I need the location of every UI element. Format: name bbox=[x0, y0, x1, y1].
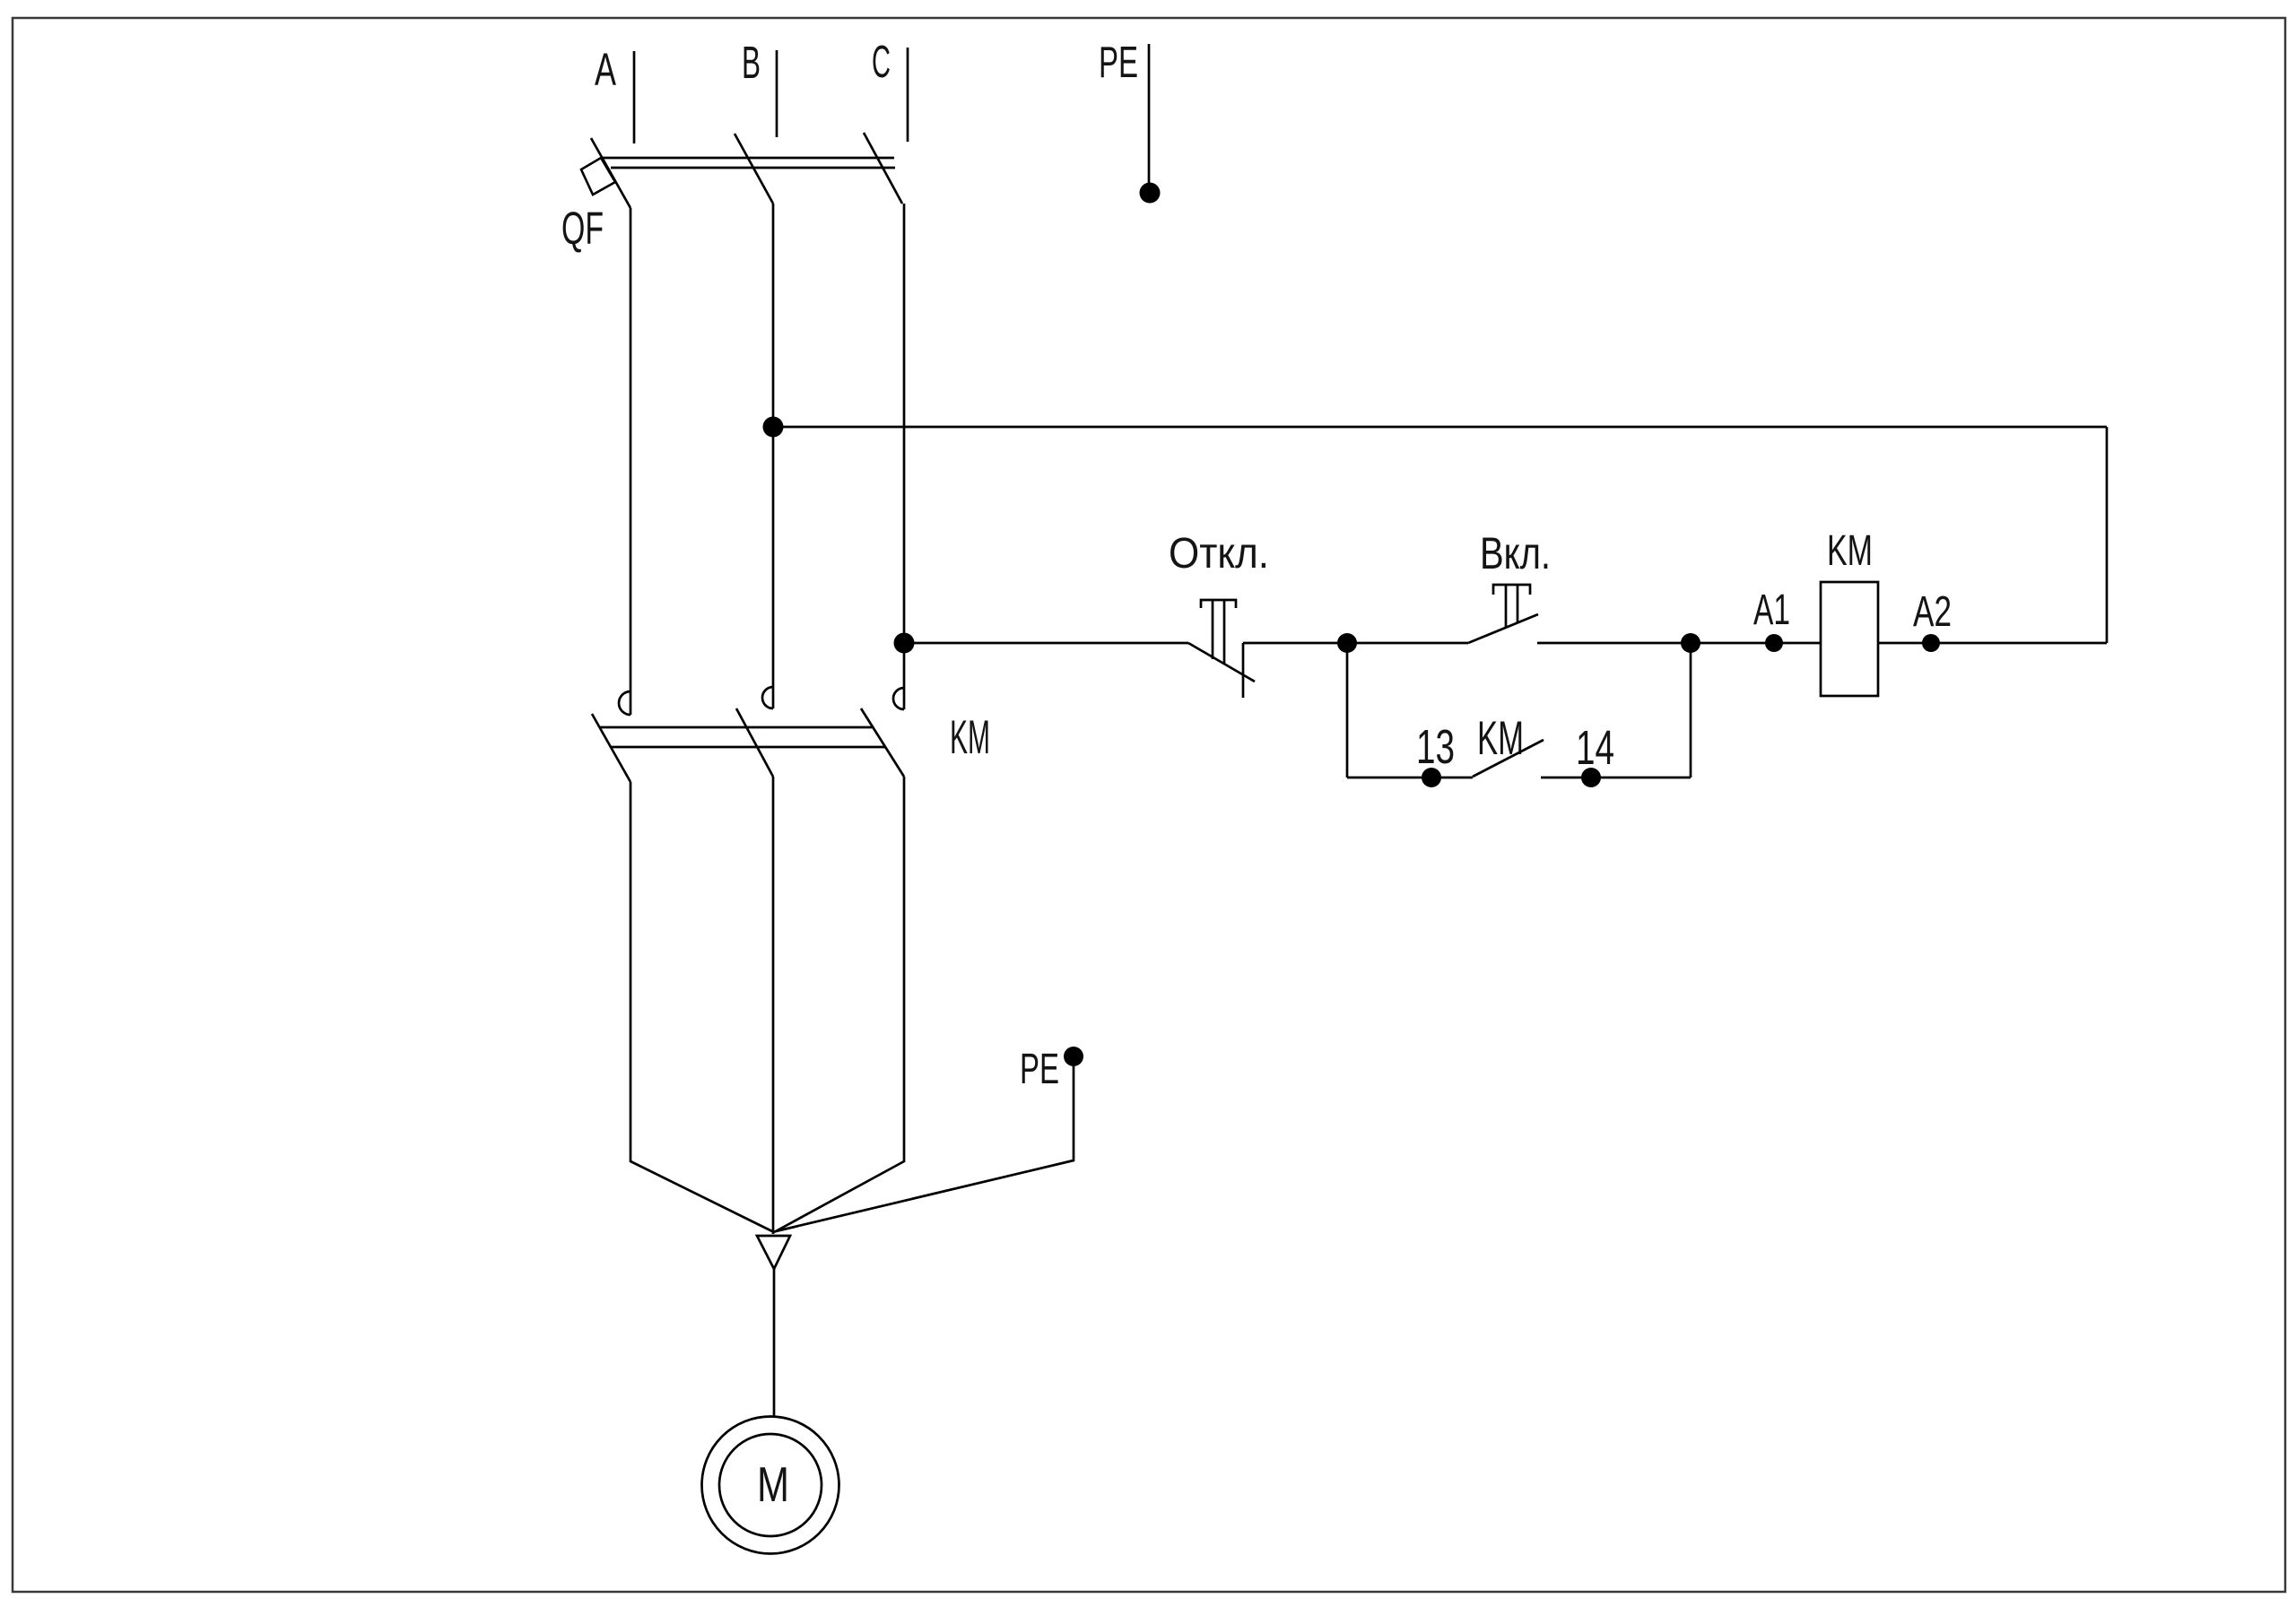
wire latch branch left drop bbox=[1346, 643, 1349, 778]
svg-text:PE: PE bbox=[1099, 39, 1138, 87]
wire control line C-tap to stop button bbox=[904, 642, 1188, 645]
contactor KM pole C fixed contact arc bbox=[893, 688, 904, 709]
wire latch branch right bbox=[1541, 777, 1691, 779]
svg-text:C: C bbox=[872, 36, 891, 87]
wire coil to feeder drop bbox=[1878, 642, 2107, 645]
wire node to coil bbox=[1691, 642, 1821, 645]
wire node to start button bbox=[1347, 642, 1468, 645]
wire phase B QF to junction bbox=[772, 204, 775, 708]
wire phase C QF to KM bbox=[903, 204, 906, 709]
node 13 dot bbox=[1422, 768, 1441, 787]
svg-text:13: 13 bbox=[1416, 720, 1455, 774]
circuit-breaker QF pole A blade bbox=[591, 138, 631, 208]
contactor KM pole B fixed contact arc bbox=[762, 687, 773, 708]
svg-text:A: A bbox=[595, 44, 616, 95]
svg-text:M: M bbox=[757, 1456, 789, 1512]
svg-text:Откл.: Откл. bbox=[1169, 530, 1269, 578]
contactor KM pole A fixed contact arc bbox=[619, 691, 631, 715]
node 14 dot bbox=[1581, 768, 1601, 787]
contact KM aux NO blade bbox=[1473, 740, 1544, 777]
pin A1 dot bbox=[1765, 634, 1783, 652]
wire control feeder top bbox=[773, 426, 2107, 429]
svg-text:KM: KM bbox=[950, 711, 990, 764]
svg-text:14: 14 bbox=[1576, 721, 1614, 775]
junction dot right of start button bbox=[1681, 633, 1700, 653]
svg-text:A1: A1 bbox=[1753, 586, 1790, 634]
junction dot on C (control tap) bbox=[894, 633, 915, 654]
button Откл. plunger bbox=[1212, 600, 1214, 659]
wire start button to node bbox=[1537, 642, 1691, 645]
circuit-breaker QF pole C blade bbox=[864, 133, 902, 204]
wire phase B incoming bbox=[776, 50, 778, 137]
button Вкл. NO blade bbox=[1468, 614, 1538, 643]
cable marker triangle bbox=[757, 1236, 790, 1269]
button Откл. actuator cap bbox=[1201, 600, 1236, 608]
wire phase C incoming bbox=[907, 48, 909, 142]
wire PE (top) bbox=[1148, 44, 1151, 185]
wire phase A QF to KM bbox=[630, 208, 632, 715]
wire latch branch right rise bbox=[1690, 643, 1692, 778]
svg-text:KM: KM bbox=[1827, 527, 1873, 575]
junction dot left of start button bbox=[1337, 633, 1357, 653]
circuit-breaker QF handle square bbox=[581, 158, 615, 195]
pin A2 dot bbox=[1922, 634, 1940, 652]
wire latch branch left bbox=[1347, 777, 1473, 779]
svg-text:A2: A2 bbox=[1913, 588, 1952, 636]
junction dot on B (control tap) bbox=[763, 417, 784, 438]
contactor KM pole A blade bbox=[592, 714, 631, 782]
circuit-breaker QF pole B blade bbox=[735, 134, 773, 204]
motor M outer circle bbox=[702, 1417, 839, 1554]
button Откл. fixed terminal stub bbox=[1242, 643, 1245, 698]
circuit-breaker QF linkage bar bbox=[601, 157, 894, 160]
svg-text:PE: PE bbox=[1020, 1046, 1059, 1093]
wire cable to motor bbox=[773, 1269, 776, 1418]
svg-text:KM: KM bbox=[1477, 712, 1524, 765]
button Вкл. plunger bbox=[1505, 585, 1508, 628]
junction PE bottom dot bbox=[1064, 1047, 1083, 1066]
svg-text:B: B bbox=[742, 37, 761, 88]
junction PE top dot bbox=[1140, 183, 1161, 204]
svg-text:Вкл.: Вкл. bbox=[1480, 528, 1551, 578]
coil KM rectangle bbox=[1821, 582, 1878, 696]
motor M inner circle bbox=[719, 1434, 822, 1536]
button Вкл. actuator cap bbox=[1493, 585, 1530, 595]
contactor KM pole B blade bbox=[736, 708, 773, 777]
wire stop button to node bbox=[1243, 642, 1347, 645]
wire phase A incoming bbox=[633, 51, 636, 143]
wire control feeder right drop bbox=[2106, 427, 2109, 643]
wire phase C KM to cable bbox=[774, 777, 904, 1232]
wire PE to cable bbox=[776, 1056, 1074, 1231]
button Откл. NC blade bbox=[1188, 643, 1255, 682]
svg-text:QF: QF bbox=[561, 203, 604, 254]
contactor KM linkage bar bbox=[599, 726, 873, 729]
contactor KM pole C blade bbox=[861, 708, 904, 777]
wire phase B KM to cable bbox=[772, 777, 775, 1234]
wire phase A KM to cable bbox=[631, 782, 774, 1232]
